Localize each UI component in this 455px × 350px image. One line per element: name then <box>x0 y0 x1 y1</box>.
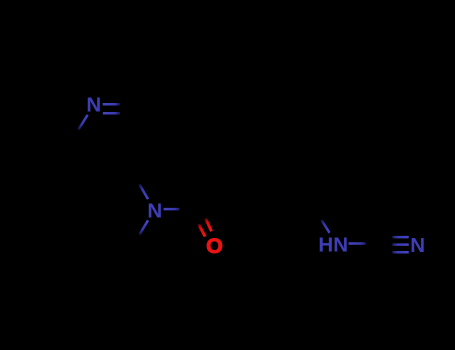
C#N triple bond (middle line) <box>392 243 408 246</box>
C#N triple bond (top line) <box>392 236 408 239</box>
svg-text:N: N <box>86 94 101 117</box>
HN to ring C bond stub (up-left) <box>322 220 330 233</box>
N1-C6 bond stub <box>79 115 88 130</box>
N1=C2 double bond (lower stub) <box>103 112 120 115</box>
svg-text:N: N <box>410 234 425 257</box>
C=O double bond stub (outer line) <box>199 224 206 236</box>
svg-text:O: O <box>206 234 223 258</box>
C=O double bond stub (inner line) <box>206 219 212 232</box>
amide N-C(=O) bond stub (right) <box>164 208 180 211</box>
svg-text:HN: HN <box>318 234 348 257</box>
svg-text:N: N <box>147 199 162 222</box>
amide N-methyl bond stub (down-left) <box>140 220 149 234</box>
C#N triple bond (bottom line) <box>392 251 408 254</box>
N1=C2 double bond (upper stub) <box>103 103 120 106</box>
HN-C bond stub (right) <box>349 242 366 245</box>
amide N to ring C bond stub (up-left) <box>140 185 149 200</box>
